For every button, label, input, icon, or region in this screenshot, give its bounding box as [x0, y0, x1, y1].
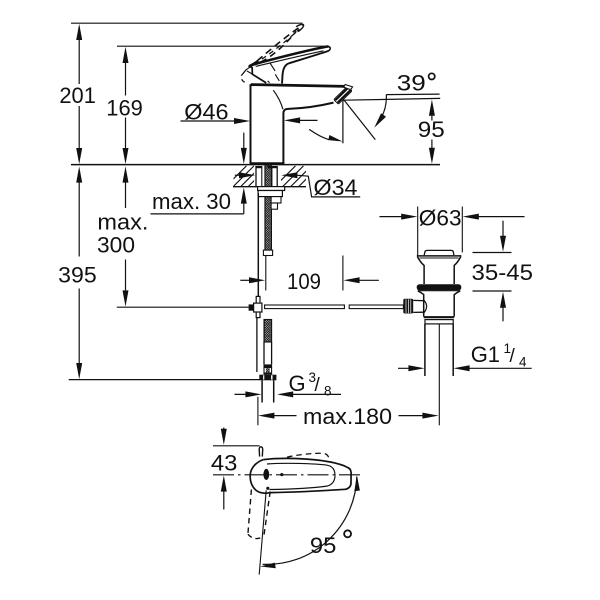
nut step 1 — [271, 197, 281, 203]
svg-text:395: 395 — [58, 263, 96, 288]
lever inner contour (top view) — [267, 463, 335, 489]
tailpipe walls — [424, 324, 426, 376]
svg-text:109: 109 — [287, 269, 321, 294]
39 deg arc — [376, 95, 386, 125]
39 deg reference line — [386, 93, 439, 96]
waste plug cap — [424, 250, 454, 255]
hose crimp collar — [264, 368, 272, 374]
reference line bottom of supply hose (395 bottom) — [69, 379, 260, 381]
pop-up rod joint pin — [256, 296, 260, 317]
max.180 dimension left arrow — [258, 413, 274, 419]
center line (dash-dot) — [213, 474, 364, 476]
Ø34 left arrow — [235, 174, 246, 176]
waste body below gasket — [418, 291, 424, 317]
Ø63 right extension line — [461, 207, 463, 253]
hose dark band — [264, 364, 273, 367]
handle nose left small lines — [246, 67, 252, 75]
max.180 left extension line — [257, 397, 259, 426]
35-45 top arrow — [502, 221, 504, 237]
dimension 43 top arrow — [223, 428, 225, 430]
waste flange sides — [417, 257, 424, 284]
lever handle top edge (thick) — [249, 46, 328, 66]
max.30 upper arrow (down at deck top) — [241, 148, 247, 164]
shank tube top ticks — [256, 166, 262, 168]
raised handle dashed bottom edge — [250, 31, 296, 65]
39 deg diagonal line — [343, 99, 375, 140]
Ø46 right arrow — [284, 117, 300, 123]
Ø63 left extension line — [417, 207, 419, 257]
dimension max.300 bottom arrow — [123, 290, 129, 306]
tailpipe coupling ring — [425, 320, 453, 324]
svg-text:201: 201 — [59, 83, 96, 108]
pop-up rod joint block — [254, 303, 262, 312]
hose middle plain section walls — [263, 342, 265, 364]
cartridge internal line 3 — [268, 81, 270, 83]
cartridge internal line 1 — [270, 63, 275, 71]
max.30 leader vertical — [243, 197, 245, 214]
95 deg arc top arrowhead — [354, 475, 360, 491]
deck hatching left patch — [226, 166, 269, 187]
internal ball joint arc — [424, 300, 427, 313]
43 reference line — [213, 445, 260, 447]
G1 1/4 left arrow — [398, 367, 415, 369]
Ø63 left arrow — [380, 216, 409, 218]
rotated lever dashed outline (top) — [287, 453, 329, 458]
faucet body left edge — [250, 84, 252, 164]
rubber gasket (black) — [417, 284, 462, 290]
pop-up horizontal rod segment 1 — [265, 305, 345, 309]
95 deg arc bottom arrowhead — [260, 563, 276, 569]
dimension max.300 vertical line — [125, 183, 127, 209]
svg-text:Ø63: Ø63 — [419, 206, 462, 231]
cartridge internal line 2 — [275, 74, 279, 81]
svg-text:95: 95 — [418, 117, 445, 142]
aerator outlet reference line (95 top) — [343, 98, 440, 100]
aerator (spout outlet) — [334, 86, 352, 104]
svg-text:max.: max. — [97, 210, 148, 235]
reference line: counter deck bottom — [233, 186, 306, 188]
threaded rod (crosshatched) through deck — [265, 166, 272, 250]
water flow arc — [309, 129, 329, 139]
braided hose upper crosshatch — [264, 320, 272, 343]
max.30 upper arrow line — [243, 133, 245, 150]
dimension 95 bottom arrow — [431, 140, 433, 149]
35-45 bottom reference line — [473, 290, 512, 292]
raised handle nose dashes — [241, 70, 246, 83]
rotated handle axis line — [259, 490, 266, 574]
Ø46 leader line — [181, 120, 235, 122]
pop-up rod joint left cap — [249, 304, 254, 310]
95 deg arc — [263, 477, 357, 565]
washer under deck — [258, 187, 285, 191]
dimension 395 vertical line — [78, 183, 80, 257]
spout tip nose — [344, 85, 353, 90]
shank tube outer walls — [255, 166, 257, 187]
G3/8 connection pipe — [261, 380, 263, 402]
svg-text:39: 39 — [397, 71, 426, 96]
shank tube inner walls — [261, 166, 263, 187]
svg-text:/: / — [510, 346, 516, 367]
svg-text:max. 30: max. 30 — [152, 189, 231, 214]
faucet body top edge (thick) — [251, 85, 346, 87]
rotated handle dashed left edge — [248, 490, 252, 535]
drain center line — [438, 320, 440, 425]
pop-up pull rod vertical — [257, 193, 259, 296]
faucet body bottom edge on deck — [250, 162, 285, 165]
water flow arrowhead — [328, 135, 342, 142]
reference line: counter deck top — [71, 164, 440, 166]
waste body bottom edge — [424, 316, 455, 318]
reference line: top of lever (169 top) — [117, 45, 329, 47]
svg-text:G: G — [289, 371, 306, 396]
dimension 169 bottom arrow — [123, 148, 129, 164]
rotated handle dashed bottom arc — [248, 534, 264, 538]
mounting nut — [258, 191, 282, 197]
reference line: top of raised handle (201 top) — [71, 22, 303, 24]
lever top edge (top view) — [264, 458, 347, 467]
Ø34 right leader arrow — [281, 172, 297, 178]
G3/8 right arrow + underline — [277, 391, 293, 397]
extension line for max.300 at pop-up rod level — [117, 306, 249, 308]
39 deg arc arrowhead — [374, 113, 386, 128]
faucet body right edge + spout underside — [283, 103, 333, 164]
lever right end (top view) — [346, 467, 352, 489]
dimension max.300 top arrow — [123, 166, 129, 182]
pull rod below joint — [256, 318, 258, 372]
raised handle dashed top edge — [257, 25, 303, 61]
Ø46 left arrow — [234, 118, 250, 124]
raised handle tip — [296, 24, 304, 31]
35-45 bottom arrow — [500, 292, 506, 308]
threaded rod end cap — [263, 250, 272, 255]
svg-text:/: / — [315, 375, 321, 396]
knob stem — [413, 300, 424, 312]
knurled adjuster knob — [403, 299, 413, 314]
lever bottom edge (top view) — [270, 489, 345, 492]
max.180 dimension right arrow — [399, 415, 425, 417]
body internal contour line — [273, 90, 283, 109]
dimension 201 bottom arrow — [76, 148, 82, 164]
dimension 201 top arrow — [76, 24, 82, 40]
dimension 395 bottom arrow — [76, 363, 82, 379]
dimension 169 vertical line — [125, 63, 127, 96]
cap small dot 1 — [280, 473, 283, 476]
waste flange top edge — [417, 255, 462, 257]
pop-up horizontal rod segment 2 — [349, 305, 403, 309]
lever inner highlight line — [256, 51, 324, 67]
deck hatching right patch — [275, 166, 320, 187]
dimension 169 top arrow — [123, 47, 129, 63]
nut step 2 — [271, 203, 277, 209]
109 right arrow — [343, 277, 359, 283]
109 left extension line — [265, 256, 267, 291]
Ø63 right arrow — [463, 214, 479, 220]
svg-text:35-45: 35-45 — [472, 260, 534, 285]
handle cap black oval — [263, 469, 269, 480]
vertical line below aerator — [342, 97, 344, 143]
rotated handle dashed right edge — [264, 492, 270, 537]
waste flange second line — [420, 257, 459, 259]
svg-text:max.180: max.180 — [303, 404, 392, 429]
max.30 leader underline — [151, 213, 244, 215]
svg-text:G1: G1 — [471, 342, 500, 367]
svg-text:8: 8 — [324, 384, 332, 399]
lever handle underside — [282, 51, 329, 84]
dimension 201 vertical line — [78, 40, 80, 84]
raised handle dashed middle line — [254, 29, 299, 64]
handle nose outline — [249, 66, 267, 83]
solid mark where dashed meets lever — [250, 61, 258, 66]
G1 1/4 right arrow — [453, 365, 469, 371]
109 left arrow — [240, 279, 249, 281]
cap small dot 2 — [266, 487, 269, 490]
max.30 lower arrow (up at deck bottom) — [241, 187, 247, 203]
svg-text:Ø34: Ø34 — [314, 175, 358, 200]
dimension 43 bottom arrow — [221, 475, 227, 491]
handle pin (top view) — [259, 447, 263, 457]
dimension 95 top arrow — [429, 100, 435, 116]
hose nut G3/8 — [259, 375, 276, 381]
dimension 395 top arrow — [76, 166, 82, 182]
lever handle tip — [328, 46, 330, 51]
svg-text:169: 169 — [106, 96, 143, 121]
svg-text:43: 43 — [211, 450, 238, 475]
svg-text:4: 4 — [519, 355, 527, 370]
svg-text:300: 300 — [97, 233, 135, 258]
svg-text:95: 95 — [310, 533, 337, 558]
handle cap (top view) — [250, 460, 270, 494]
35-45 top reference line — [473, 252, 512, 254]
G3/8 left arrow — [235, 393, 253, 395]
109 right extension line — [342, 256, 344, 291]
